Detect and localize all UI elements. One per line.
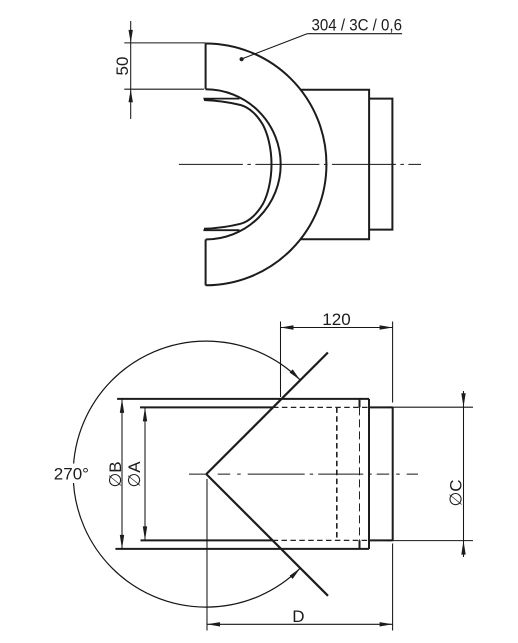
pipe inner bottom edge hidden	[273, 539, 369, 541]
svg-text:120: 120	[322, 310, 350, 329]
270 degree arc	[73, 341, 300, 607]
dimension phiC line	[463, 391, 465, 557]
flange ring hidden dashed	[359, 407, 361, 540]
end pipe bottom edge	[369, 539, 393, 541]
270 arc arrow lower	[290, 568, 301, 579]
dimension 50 arrow top	[129, 30, 133, 43]
dimension 50 extension top	[124, 42, 205, 44]
dimension D arrow left	[207, 622, 220, 626]
pipe right edge	[368, 399, 370, 549]
dimension D extension right	[392, 544, 394, 631]
svg-text:50: 50	[113, 57, 132, 76]
dimension phiC arrow top	[461, 393, 465, 407]
270 text background	[50, 464, 92, 484]
pipe inner bottom edge visible	[141, 539, 273, 541]
dimension phiC arrow bottom	[461, 541, 465, 555]
rosette outer rim arc	[206, 44, 327, 286]
dimension 50 line	[130, 21, 132, 119]
material label underline	[307, 33, 402, 35]
dimension D arrow right	[380, 622, 393, 626]
svg-text:∅B: ∅B	[106, 461, 125, 487]
svg-text:∅C: ∅C	[446, 479, 465, 506]
dimension 120 line	[281, 327, 393, 329]
dimension 120 extension right	[392, 322, 394, 403]
pipe end section outline	[369, 99, 392, 230]
material label leader line	[242, 34, 308, 59]
rosette flat edge lower segment	[205, 240, 207, 286]
dimension phiC extension bottom	[386, 540, 473, 542]
svg-text:270°: 270°	[54, 465, 89, 484]
collar seam edge bottom	[203, 229, 239, 231]
dimension D extension left	[206, 479, 208, 631]
dimension 50 arrow bottom	[129, 89, 133, 102]
svg-text:D: D	[292, 607, 304, 626]
collar hidden edge dashed	[336, 407, 338, 540]
pipe inner top edge visible	[140, 406, 273, 408]
collar seam edge top	[203, 98, 239, 100]
end pipe top edge	[369, 406, 393, 408]
dimension 120 extension left	[280, 322, 282, 398]
dimension phiB arrow bottom	[120, 535, 124, 549]
centerline front view	[189, 473, 206, 475]
cut edge lower V arm	[206, 474, 328, 596]
collar outer arc	[206, 89, 281, 239]
dimension 120 arrow right	[380, 325, 393, 329]
svg-text:∅A: ∅A	[125, 461, 144, 488]
pipe outer top edge	[117, 398, 369, 400]
svg-text:304 / 3C / 0,6: 304 / 3C / 0,6	[312, 15, 403, 34]
dimension phiA arrow top	[143, 407, 147, 421]
dimension D line	[207, 623, 393, 625]
rosette flat edge upper segment	[205, 44, 207, 90]
dimension phiA line	[144, 407, 146, 540]
pipe body outline	[301, 90, 369, 240]
flange ring top solid	[359, 399, 361, 408]
dimension 50 extension bottom	[124, 88, 204, 90]
collar inner arc	[204, 100, 272, 229]
flange ring bottom solid	[359, 540, 361, 549]
dimension 120 arrow left	[281, 325, 294, 329]
dimension phiC extension top	[386, 406, 473, 408]
dimension phiA arrow bottom	[143, 526, 147, 540]
end pipe right edge	[392, 407, 394, 540]
cut edge upper V arm	[206, 353, 328, 475]
pipe inner top edge hidden	[273, 406, 369, 408]
pipe outer bottom edge	[115, 548, 369, 550]
dimension phiB arrow top	[120, 399, 124, 413]
dimension phiB line	[121, 399, 123, 549]
material label leader dot	[240, 57, 244, 61]
centerline top view	[179, 163, 421, 165]
270 arc arrow upper	[290, 369, 301, 380]
